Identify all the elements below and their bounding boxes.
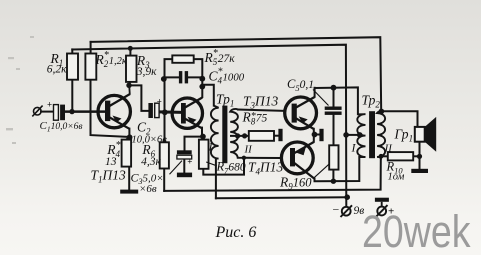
wire R7 top lead (202, 137, 204, 140)
resistor R8 (249, 131, 274, 141)
wire C5 bottom to R9 top (333, 115, 335, 145)
wire R8 right lead (274, 135, 278, 137)
resistor R6 (160, 142, 169, 168)
svg-text:C50,1: C50,1 (287, 77, 314, 93)
wire Tp1 center tap to R8 (231, 135, 249, 137)
svg-text:R8*75: R8*75 (242, 110, 268, 127)
wire R3 bottom lead (128, 82, 131, 85)
transformer Tp2 primary winding I (357, 114, 365, 157)
svg-text:C110,0×6в: C110,0×6в (40, 120, 83, 134)
capacitor C1 (54, 105, 66, 121)
svg-text:+: + (47, 99, 52, 109)
svg-text:Т3П13: Т3П13 (243, 93, 279, 110)
resistor R4 (122, 140, 132, 167)
wire T3 collector node to Tp2 primary top (315, 87, 358, 114)
wire R4 bottom lead (128, 167, 130, 190)
svg-text:−: − (333, 203, 340, 217)
wire Tp2 center tap (346, 134, 360, 136)
wire Tp1 secondary top to T3 base (238, 110, 284, 111)
svg-text:+: + (187, 156, 192, 166)
ground under speaker (411, 169, 428, 173)
chassis bar at R8 (278, 129, 282, 141)
wire T2 emitter lead (201, 128, 203, 137)
wire T1 collector node to C2 (129, 85, 149, 111)
wire C2 to T2 base (159, 110, 181, 113)
resistor R9 (329, 145, 338, 169)
plus battery terminal with chassis (375, 198, 389, 217)
wire rail B minus supply bottom (216, 197, 347, 198)
input terminal (32, 106, 42, 117)
ground under C3 (177, 173, 192, 178)
wire lower supply rail (72, 45, 346, 207)
svg-text:+: + (157, 96, 162, 106)
transistor T1 (98, 85, 130, 129)
transistor T4 (281, 142, 314, 179)
transistor T3 (285, 97, 317, 129)
ground under R4 (120, 190, 138, 194)
wire R9 bottom lead (332, 170, 334, 182)
svg-text:II: II (384, 143, 394, 155)
capacitor C4 (179, 71, 188, 83)
label leader C5 (313, 90, 329, 106)
capacitor C5 (325, 107, 342, 115)
resistor R5 (172, 55, 193, 62)
wire R5 C4 T2-base vertical (165, 59, 173, 142)
label leader R7 (206, 162, 217, 166)
wire C1 to T1 base (65, 110, 105, 113)
wire T3 emitter lead down (313, 129, 315, 135)
svg-text:II: II (244, 144, 254, 156)
transformer Tp2 core (369, 111, 375, 158)
wire T2 emitter to C3 top (185, 137, 204, 151)
label leader C3 (170, 161, 183, 175)
wire rail A ground bottom (164, 158, 381, 191)
wire upper feedback rail (91, 37, 382, 111)
svg-text:13: 13 (105, 156, 117, 168)
wire R10 left lead (381, 155, 388, 157)
wire C4 left lead (165, 76, 179, 78)
wire input base line (41, 111, 54, 113)
svg-text:3,9к: 3,9к (136, 66, 157, 78)
wire T1 emitter to R4 (128, 129, 130, 138)
resistor R3 (126, 56, 137, 82)
transformer Tp1 primary winding I (211, 106, 219, 159)
wire R5 right lead (194, 59, 203, 97)
wire R10 right lead (413, 155, 419, 157)
wire T3 collector up to top wire (314, 88, 316, 97)
wire R1 top lead (71, 49, 73, 53)
wire T2 collector node to Tp1 primary top (202, 85, 214, 106)
svg-text:20wek: 20wek (362, 206, 471, 255)
wire Tp2 secondary top to speaker (381, 111, 417, 127)
wire R7 bottom to T4 base node (203, 158, 244, 175)
svg-text:Рис. 6: Рис. 6 (215, 224, 257, 241)
wire R4 top lead (126, 137, 128, 139)
wire T4 base line (244, 157, 280, 159)
transformer Tp1 core (222, 106, 227, 164)
transformer Tp2 secondary winding II (377, 111, 385, 158)
resistor R1 (67, 54, 78, 80)
svg-text:×6в: ×6в (139, 183, 157, 195)
wire T4 collector to Tp2 primary bottom (315, 157, 360, 181)
wire speaker bottom lead (419, 142, 421, 169)
wire R3 top lead (129, 48, 131, 55)
wire R6 bottom lead (163, 169, 165, 191)
transformer Tp1 secondary winding II (230, 109, 244, 158)
loudspeaker Gr1 (415, 117, 436, 152)
svg-text:Т4П13: Т4П13 (248, 159, 284, 176)
wire R2 bottom lead to T1 emitter node (91, 80, 130, 137)
wire C5 top lead (333, 88, 335, 107)
transistor T2 (172, 98, 202, 129)
svg-text:Т1П13: Т1П13 (91, 168, 127, 185)
wire emitters to chassis bar (315, 134, 320, 136)
label leader R9 (314, 164, 329, 178)
wire T4 emitter lead up (313, 134, 315, 141)
wire R2 top lead (90, 42, 92, 54)
wire Tp1 primary bottom to rail B (215, 159, 217, 199)
svg-text:1ом: 1ом (388, 172, 405, 183)
resistor R7 (199, 140, 209, 169)
capacitor C3 (177, 150, 192, 159)
resistor R10 (388, 152, 413, 160)
chassis bar at emitters (319, 129, 323, 141)
wire R1 bottom lead (71, 80, 73, 112)
svg-text:R9160: R9160 (279, 175, 312, 192)
capacitor C2 (148, 103, 159, 118)
wire C3 bottom lead (183, 159, 185, 173)
svg-text:6,2к: 6,2к (47, 64, 67, 76)
wire C4 right lead (188, 76, 202, 78)
svg-text:4,3к: 4,3к (141, 156, 161, 168)
resistor R2 (85, 54, 96, 80)
minus battery terminal (341, 205, 353, 217)
svg-text:R7680: R7680 (216, 159, 246, 175)
scan noise specks (6, 36, 34, 144)
